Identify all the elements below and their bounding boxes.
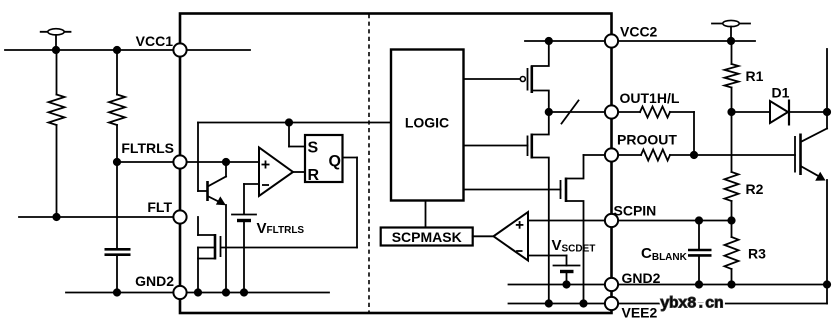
svg-text:R3: R3 xyxy=(748,246,766,262)
wire GND2 internal left xyxy=(180,292,329,294)
node battery-GND2 right xyxy=(562,280,570,288)
node VCC2-source junction xyxy=(545,37,553,45)
resistor R2 xyxy=(725,112,739,221)
wire GND2 external right xyxy=(612,284,828,286)
svg-text:PROOUT: PROOUT xyxy=(617,132,677,148)
wire FLT external xyxy=(19,216,180,218)
resistor PROOUT gate xyxy=(612,150,796,161)
wire R1 node to D1 xyxy=(732,111,771,113)
wire S input drop xyxy=(289,123,305,147)
diode D1 xyxy=(770,100,827,126)
resistor R3 xyxy=(725,221,739,285)
svg-text:VSCDET: VSCDET xyxy=(552,237,596,254)
LOGIC block xyxy=(391,50,464,201)
node pulldown-VEE2 xyxy=(579,299,587,307)
wire VCC1 rail external xyxy=(5,49,180,51)
dashed isolation line xyxy=(368,14,370,312)
node VCC2-R1 junction xyxy=(727,37,735,45)
svg-text:SCPIN: SCPIN xyxy=(614,203,657,219)
op-amp U1 xyxy=(259,148,293,197)
pin OUT1H/L xyxy=(605,90,680,119)
transistor Q5 NMOS PROOUT pulldown xyxy=(561,155,584,304)
watermark xyxy=(660,295,723,313)
wire LOGIC out2 to NMOS gate xyxy=(464,145,528,147)
node D1-collector junction xyxy=(823,108,831,116)
wire comparator plus to SCPIN xyxy=(528,220,612,222)
node emitter-GND2 xyxy=(222,288,230,296)
wire LOGIC out1 to PMOS gate xyxy=(464,78,521,80)
transistor Q2 NMOS (FLT pulldown) xyxy=(198,217,357,293)
wire GND2 external left xyxy=(66,292,180,294)
svg-text:GND2: GND2 xyxy=(135,273,174,289)
resistor left2 (VCC1 to FLTRLS) xyxy=(109,50,125,162)
capacitor CBLANK xyxy=(688,221,712,285)
bus slash on OUT wire xyxy=(562,101,579,124)
node R3-GND2 xyxy=(727,280,735,288)
wire SCPIN external xyxy=(612,220,732,222)
svg-text:R: R xyxy=(308,167,320,184)
transistor Q4 NMOS low-side xyxy=(528,112,549,304)
wire VEE2 internal xyxy=(509,303,612,305)
wire to LOGIC (base/S node) xyxy=(198,123,391,192)
node SCPIN-R2R3 junction xyxy=(727,216,735,224)
wire Q output xyxy=(343,158,358,248)
svg-text:R2: R2 xyxy=(746,181,764,197)
resistor R1 xyxy=(725,41,739,112)
wire comparator minus to battery xyxy=(528,256,567,266)
node gate resistor junction xyxy=(690,151,698,159)
node VCC1-bead junction xyxy=(52,46,60,54)
node FLTRLS divider junction xyxy=(113,158,121,166)
svg-text:D1: D1 xyxy=(772,85,790,101)
wire VCC2 rail external xyxy=(612,40,756,42)
node LOGIC-S junction xyxy=(285,118,293,126)
node source-GND2 xyxy=(194,288,202,296)
bead symbol over VCC1 xyxy=(41,29,71,50)
node lowside-VEE2 xyxy=(545,299,553,307)
bead symbol over VCC2 xyxy=(712,20,750,41)
svg-text:FLTRLS: FLTRLS xyxy=(121,140,174,156)
wire collector stub up xyxy=(826,49,828,112)
svg-text:VFLTRLS: VFLTRLS xyxy=(257,220,305,237)
wire OUT node to pin xyxy=(549,111,612,113)
node R1-D1-R2 junction xyxy=(727,108,735,116)
IC boundary box xyxy=(180,14,612,314)
wire op-amp out to R xyxy=(293,171,305,173)
pin SCPIN xyxy=(605,203,656,228)
svg-text:FLT: FLT xyxy=(147,199,172,215)
resistor OUT gate xyxy=(612,107,695,156)
transistor Q3 PMOS high-side xyxy=(520,41,549,112)
wire LOGIC out3 to NMOS2 gate xyxy=(464,189,561,191)
capacitor left (FLTRLS to GND2) xyxy=(105,162,131,293)
svg-text:VCC2: VCC2 xyxy=(620,24,658,40)
pin VCC2 xyxy=(605,24,658,48)
pin FLTRLS xyxy=(121,140,186,169)
wire PROOUT internal xyxy=(584,154,612,156)
svg-text:SCPMASK: SCPMASK xyxy=(392,229,462,245)
wire GND2 internal right xyxy=(509,284,612,286)
svg-text:GND2: GND2 xyxy=(622,270,661,286)
pin VCC1 xyxy=(136,33,187,57)
battery V_SCDET xyxy=(554,266,580,285)
SCPMASK block xyxy=(381,201,473,246)
transistor Q1 NPN (FLTRLS clamp) xyxy=(198,162,226,293)
svg-text:Q: Q xyxy=(329,153,341,170)
wire VCC2 rail internal xyxy=(525,40,612,42)
pin FLT xyxy=(147,199,186,224)
svg-text:R1: R1 xyxy=(746,68,764,84)
wire VEE2 external xyxy=(612,303,828,305)
pin GND2 left xyxy=(135,273,187,299)
node emitter-GND2 right xyxy=(823,280,831,288)
node FLT divider junction xyxy=(52,213,60,221)
pin PROOUT xyxy=(605,132,677,162)
wire FLTRLS external xyxy=(117,161,180,163)
node CBLANK-GND2 xyxy=(695,280,703,288)
node SCPIN-CBLANK junction xyxy=(695,216,703,224)
wire VCC1 internal stub xyxy=(180,49,250,51)
svg-text:VCC1: VCC1 xyxy=(136,33,174,49)
node cap-GND2 junction xyxy=(113,288,121,296)
node battery-GND2 xyxy=(240,288,248,296)
pin GND2 right xyxy=(605,270,661,291)
pin VEE2 xyxy=(605,297,658,321)
resistor left1 (VCC1 to FLT) xyxy=(49,50,65,217)
svg-text:LOGIC: LOGIC xyxy=(405,115,449,131)
node totem output xyxy=(545,108,553,116)
svg-text:CBLANK: CBLANK xyxy=(641,245,688,263)
node VCC1-R2 junction xyxy=(113,46,121,54)
transistor Q6 IGBT xyxy=(795,112,827,304)
wire op-amp minus input xyxy=(244,184,259,214)
wire FLTRLS internal to op-amp xyxy=(180,161,259,163)
node FLTRLS-collector junction xyxy=(222,158,230,166)
comparator U3 SC detect xyxy=(473,212,528,261)
svg-text:S: S xyxy=(308,140,319,157)
battery V_FLTRLS xyxy=(232,215,256,293)
svg-text:VEE2: VEE2 xyxy=(622,305,658,321)
svg-text:OUT1H/L: OUT1H/L xyxy=(620,90,680,106)
latch U2 SR box xyxy=(305,135,343,184)
svg-text:ybx8.cn: ybx8.cn xyxy=(660,295,723,313)
